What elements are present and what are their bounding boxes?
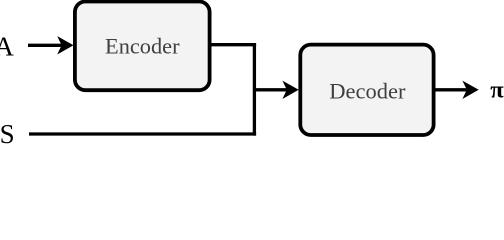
arrowhead into Encoder: [57, 36, 73, 54]
wire trunk to Decoder: [253, 88, 287, 91]
block Decoder: [300, 45, 433, 135]
svg-text:Decoder: Decoder: [329, 78, 406, 103]
wire S line: [29, 132, 256, 135]
wire A to Encoder: [28, 44, 62, 47]
svg-text:π: π: [490, 76, 504, 103]
svg-text:A: A: [0, 31, 14, 62]
arrowhead into Decoder: [282, 81, 298, 99]
block Encoder: [75, 2, 210, 91]
arrowhead to pi: [462, 81, 478, 99]
wire Decoder to pi: [434, 88, 468, 91]
svg-text:S: S: [0, 119, 15, 144]
svg-text:Encoder: Encoder: [105, 34, 180, 59]
wire vertical trunk: [253, 43, 256, 136]
wire Encoder to corner: [210, 43, 257, 46]
